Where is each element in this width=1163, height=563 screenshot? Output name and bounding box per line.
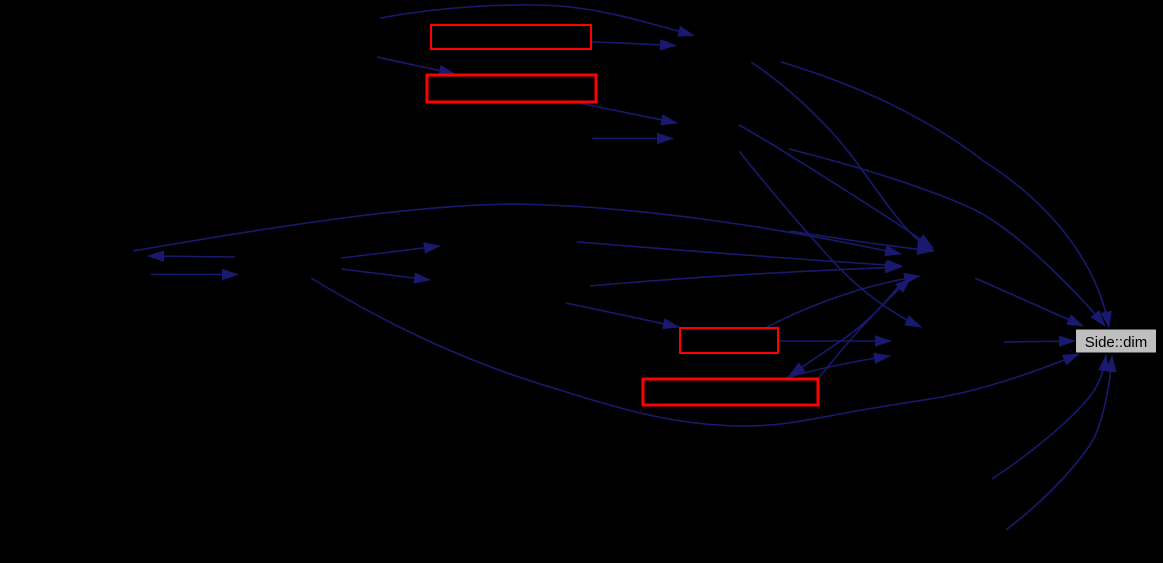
wire edge E15 — [341, 269, 430, 280]
wire edge D1 hub to G — [975, 278, 1083, 326]
wire edge R rising — [590, 267, 901, 286]
node R1 red box — [431, 25, 591, 49]
wire edge B second right curve — [789, 149, 1105, 326]
wire edge Efar long left arc — [133, 204, 901, 254]
wire edge K — [739, 151, 921, 327]
wire edge E3 into R2 — [377, 57, 455, 74]
node R4 red box — [643, 379, 818, 405]
wire edge L1 — [992, 355, 1106, 479]
wire edge E21 from R3 — [779, 340, 891, 342]
wire edge E5 horizontal — [593, 137, 674, 139]
node G Side::dim — [1076, 329, 1157, 353]
node R3 red box — [680, 328, 778, 353]
node R2 red box — [427, 75, 596, 102]
wire edge E1 top arc — [380, 5, 694, 36]
wire edge X2 into R4 — [789, 282, 902, 376]
wire edge E14 — [341, 246, 440, 258]
svg-text:Side::dim: Side::dim — [1085, 334, 1148, 351]
wire edge A long right curve — [781, 62, 1109, 328]
wire edge E26 into R3 — [566, 303, 679, 327]
wire edge M from node C — [577, 242, 902, 266]
wire edge E30 — [790, 231, 933, 251]
wire edge H1 into G left — [1004, 341, 1075, 342]
wire edge E22 from R4 rising — [786, 356, 890, 378]
wire edge E27 from R3 corner — [767, 276, 920, 327]
wire edge S1 steep into hub — [751, 62, 934, 251]
wire edge E28 from R4 corner — [818, 278, 911, 379]
wire edge E4 from R2 — [569, 101, 677, 123]
wire edge E13b right arrow — [151, 274, 238, 276]
wire edge E13a left arrow — [148, 256, 235, 257]
wire edge E29 — [739, 125, 933, 248]
wire edge L2 — [1006, 356, 1112, 530]
wire edge W big swoop — [311, 278, 1079, 426]
wire edge E2 from R1 right — [592, 42, 676, 46]
